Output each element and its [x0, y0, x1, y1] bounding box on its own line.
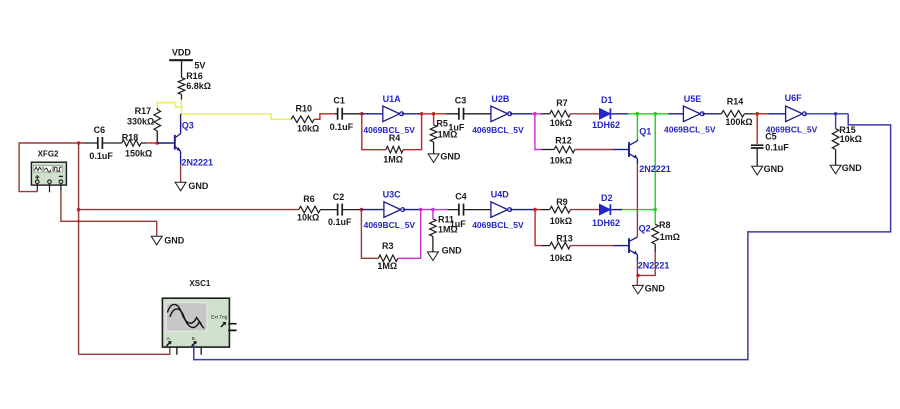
wire D2 cathode [611, 209, 622, 211]
node junction U1A output [420, 112, 424, 116]
wire maroon Q1 emitter to Q2 collector [636, 164, 638, 237]
svg-text:R10: R10 [296, 103, 313, 113]
svg-text:10kΩ: 10kΩ [840, 134, 862, 144]
svg-text:D2: D2 [601, 193, 613, 203]
node junction R11 tap [431, 208, 435, 212]
resistor R11 [430, 214, 458, 252]
wire red: R10 to C1 [314, 114, 335, 120]
transistor Q2 [629, 223, 669, 270]
svg-text:150kΩ: 150kΩ [125, 149, 152, 159]
svg-text:1uF: 1uF [450, 219, 467, 229]
wire magenta feedback R3 right [398, 210, 421, 259]
wire: C3 to U2B [466, 113, 491, 115]
wire U3C output [403, 209, 421, 211]
svg-text:C6: C6 [94, 125, 106, 135]
wire red: R13 branch [535, 210, 541, 246]
wire red R5 stub [433, 114, 435, 125]
transistor Q3 [175, 114, 213, 168]
ground GND (R15) [830, 165, 841, 174]
wire: R9 to D2 [570, 209, 599, 211]
svg-text:B: B [192, 336, 195, 342]
resistor R3 [377, 241, 397, 271]
svg-text:0.1uF: 0.1uF [330, 122, 354, 132]
wire green Q1 collector [636, 114, 638, 139]
wire blue R15 stub [835, 114, 837, 129]
node junction U3C input [360, 208, 364, 212]
diode D2 [592, 193, 620, 228]
wire green D2 row [622, 209, 655, 211]
wire to U5E input [668, 113, 683, 115]
wire red: U1A output row [422, 113, 447, 115]
svg-text:0.1uF: 0.1uF [328, 217, 352, 227]
ground GND (Q2) [633, 285, 644, 294]
svg-text:U2B: U2B [491, 94, 510, 104]
resistor R7 [550, 98, 572, 128]
svg-text:R9: R9 [556, 197, 568, 207]
resistor R12 [550, 136, 575, 166]
resistor R18 [105, 132, 152, 158]
node junction signal/R6 row [77, 208, 81, 212]
svg-text:C2: C2 [333, 192, 345, 202]
resistor R16 [178, 71, 211, 100]
wire maroon feedback R3 left [361, 210, 378, 259]
resistor R13 [550, 234, 573, 263]
svg-text:4069BCL_5V: 4069BCL_5V [766, 124, 818, 134]
wire U5E output [702, 113, 716, 115]
resistor R6 [297, 194, 320, 223]
wire Q3 base lead [157, 142, 175, 144]
svg-text:R8: R8 [659, 220, 671, 230]
svg-text:1DH62: 1DH62 [592, 218, 620, 228]
svg-text:1mΩ: 1mΩ [660, 232, 680, 242]
svg-text:330kΩ: 330kΩ [127, 117, 154, 127]
op-amp inverter U2B [472, 94, 524, 135]
svg-text:Q1: Q1 [639, 126, 651, 136]
svg-text:R13: R13 [556, 234, 573, 244]
svg-text:0.1uF: 0.1uF [89, 151, 113, 161]
wire green output bus [628, 113, 668, 115]
wire: C1 to U1A input node [345, 113, 362, 115]
svg-text:1DH62: 1DH62 [592, 120, 620, 130]
svg-text:10kΩ: 10kΩ [297, 124, 319, 134]
svg-text:R18: R18 [122, 132, 139, 142]
wire blue U6F output [804, 113, 848, 115]
svg-text:R12: R12 [555, 136, 572, 146]
node junction R17/R18/Q3 base [156, 141, 160, 145]
node junction Q2 emitter/R8 [636, 274, 640, 278]
wire magenta: R12 branch [535, 114, 542, 150]
svg-text:2N2221: 2N2221 [639, 164, 671, 174]
power VDD [169, 48, 205, 78]
ground GND (C5) [752, 166, 763, 175]
capacitor C4 [447, 191, 466, 229]
node junction U1A input [360, 112, 364, 116]
node junction Q1 collector [636, 112, 640, 116]
svg-text:GND: GND [645, 284, 666, 294]
svg-text:VDD: VDD [172, 48, 192, 58]
svg-text:XFG2: XFG2 [38, 150, 59, 159]
svg-text:GND: GND [164, 235, 185, 245]
resistor R17 [127, 106, 161, 141]
wire magenta R11 stub [432, 210, 434, 219]
transistor Q1 [629, 126, 671, 174]
wire green vertical to D2 row [654, 114, 656, 210]
node crossing near XFG2 [77, 220, 80, 223]
svg-text:1uF: 1uF [448, 123, 465, 133]
svg-text:10kΩ: 10kΩ [550, 155, 572, 165]
svg-text:R5: R5 [436, 118, 448, 128]
wire U3C input [361, 209, 384, 211]
svg-text:R6: R6 [303, 194, 315, 204]
wire red R8 bottom [638, 252, 655, 275]
svg-text:U6F: U6F [785, 93, 803, 103]
wire yellow net: R16/R17/Q3 collector to R10 [157, 103, 181, 108]
svg-text:2N2221: 2N2221 [638, 260, 670, 270]
wire magenta output row [421, 209, 448, 211]
capacitor C1 [330, 96, 354, 132]
op-amp inverter U4D [472, 190, 524, 231]
wire XFG2 - terminal to ground [61, 192, 157, 237]
wire signal to R6 [79, 209, 299, 211]
op-amp inverter U6F [766, 93, 818, 134]
svg-text:2N2221: 2N2221 [182, 158, 214, 168]
wire red: R14 to U6F [744, 113, 753, 115]
svg-text:XSC1: XSC1 [189, 279, 210, 288]
ground GND (R5) [428, 154, 439, 163]
wire U1A input [362, 113, 383, 115]
wire: R12 to Q1 base [575, 149, 613, 151]
svg-text:10kΩ: 10kΩ [550, 253, 572, 263]
svg-text:C4: C4 [455, 191, 467, 201]
svg-text:R3: R3 [382, 241, 394, 251]
ground GND (XFG2) [151, 236, 162, 245]
node junction green D2 row [653, 208, 657, 212]
resistor R14 [721, 97, 752, 127]
node junction U2B output [533, 112, 537, 116]
wire Q1 base lead [613, 149, 629, 151]
node junction R15 tap [834, 112, 838, 116]
wire Q3 emitter to ground [180, 164, 182, 182]
svg-text:GND: GND [188, 181, 209, 191]
svg-text:1MΩ: 1MΩ [383, 154, 403, 164]
svg-text:U1A: U1A [383, 94, 402, 104]
node junction U3C output [419, 208, 423, 212]
wire U1A output [402, 113, 422, 115]
svg-text:Q3: Q3 [182, 121, 194, 131]
svg-text:C1: C1 [333, 96, 345, 106]
svg-text:Ext Trig: Ext Trig [211, 314, 228, 320]
resistor R5 [430, 118, 457, 153]
capacitor C2 [320, 192, 352, 227]
wire: C2 to U3C node [345, 209, 362, 211]
node junction green branch [653, 112, 657, 116]
capacitor C3 [446, 95, 466, 132]
svg-text:Q2: Q2 [639, 223, 651, 233]
svg-text:GND: GND [442, 246, 463, 256]
resistor R4 [383, 133, 403, 164]
diode D1 [592, 95, 620, 130]
wire XFG2 + output to C6 node [19, 143, 85, 192]
wire red Q2 emitter to ground [636, 261, 638, 285]
svg-text:4069BCL_5V: 4069BCL_5V [472, 125, 524, 135]
wire red C5 stub [756, 114, 758, 144]
wire U4D output [510, 209, 533, 211]
node junction C5 tap [755, 112, 759, 116]
node junction U4D output [533, 208, 537, 212]
wire red feedback R4 right [403, 114, 421, 150]
svg-text:GND: GND [440, 152, 461, 162]
wire red: R18 to R17/Q3 base junction [146, 142, 157, 144]
instrument XSC1 [162, 279, 236, 355]
wire magenta to R7 [532, 113, 541, 115]
svg-text:4069BCL_5V: 4069BCL_5V [472, 220, 524, 230]
svg-text:4069BCL_5V: 4069BCL_5V [364, 220, 416, 230]
wire red feedback R4 left [362, 114, 386, 150]
svg-text:10kΩ: 10kΩ [297, 213, 319, 223]
capacitor C5 [751, 132, 789, 167]
svg-text:0.1uF: 0.1uF [765, 142, 789, 152]
svg-text:D1: D1 [601, 95, 613, 105]
wire blue to oscilloscope B [194, 114, 891, 360]
resistor R9 [550, 197, 572, 226]
svg-text:R14: R14 [727, 97, 744, 107]
svg-text:U3C: U3C [383, 190, 402, 200]
resistor R15 [832, 125, 862, 165]
instrument XFG2 [31, 150, 66, 193]
svg-text:10kΩ: 10kΩ [550, 118, 572, 128]
wire: C4 to U4D [466, 209, 491, 211]
svg-text:100kΩ: 100kΩ [725, 117, 752, 127]
svg-text:U4D: U4D [491, 190, 510, 200]
wire Q2 base lead [613, 245, 629, 247]
wire green to R8 [654, 210, 656, 225]
op-amp inverter U5E [664, 94, 716, 135]
op-amp inverter U1A [363, 94, 415, 135]
svg-text:4069BCL_5V: 4069BCL_5V [664, 125, 716, 135]
svg-text:U5E: U5E [684, 94, 702, 104]
svg-text:R4: R4 [389, 133, 401, 143]
node junction XFG2/C6 [77, 141, 81, 145]
svg-text:10kΩ: 10kΩ [550, 216, 572, 226]
svg-text:GND: GND [842, 163, 863, 173]
svg-text:1MΩ: 1MΩ [377, 261, 397, 271]
resistor R8 [652, 220, 680, 252]
wire: R7 to D1 [570, 113, 599, 115]
wire signal net down-left [79, 143, 170, 354]
op-amp inverter U3C [364, 190, 416, 231]
node junction R5 tap [432, 112, 436, 116]
svg-text:R16: R16 [186, 71, 203, 81]
wire U6F input [768, 113, 785, 115]
wire U2B output [510, 113, 532, 115]
wire red output row [533, 209, 541, 211]
svg-text:GND: GND [764, 164, 785, 174]
svg-text:R7: R7 [556, 98, 568, 108]
svg-text:R17: R17 [135, 106, 152, 116]
wire: R13 to Q2 base [570, 245, 613, 247]
svg-text:6.8kΩ: 6.8kΩ [186, 81, 211, 91]
svg-text:C3: C3 [455, 95, 467, 105]
resistor R10 [291, 103, 319, 133]
capacitor C6 [84, 125, 113, 161]
svg-text:5V: 5V [194, 61, 205, 71]
wire D1 cathode [611, 113, 628, 115]
ground GND (R11) [427, 252, 438, 261]
ground GND (Q3 emitter) [175, 182, 186, 191]
